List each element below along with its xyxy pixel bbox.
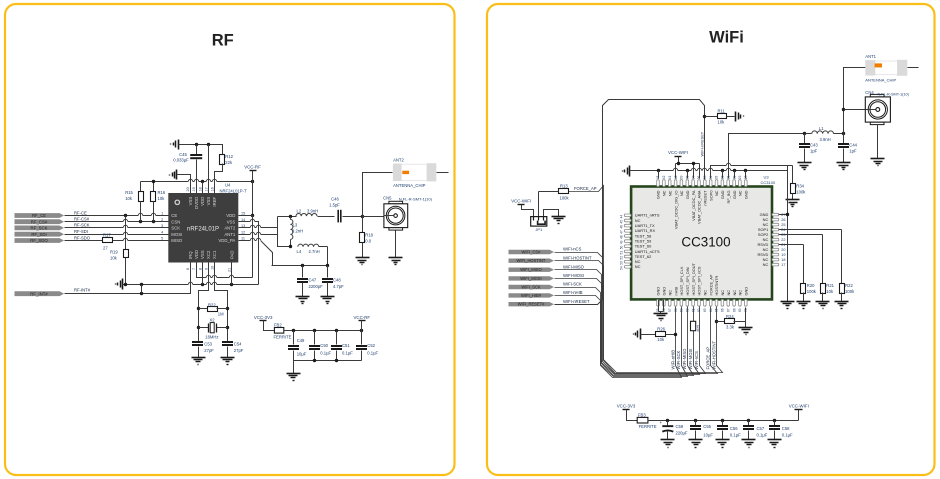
svg-text:WIFI-MISO: WIFI-MISO [682,348,687,370]
svg-text:N.FL-R-SMT-1(10): N.FL-R-SMT-1(10) [399,197,433,202]
svg-text:VBAT_DCDC_PA: VBAT_DCDC_PA [691,190,696,221]
svg-text:FERRITE: FERRITE [274,335,292,340]
svg-text:L2: L2 [297,208,302,213]
svg-text:VSS: VSS [206,197,211,206]
svg-text:2: 2 [161,218,163,222]
svg-text:GND: GND [685,190,690,199]
svg-text:63: 63 [703,308,707,312]
svg-text:100k: 100k [560,196,570,201]
ground G19 [798,162,812,164]
capacitor C57 [748,421,750,426]
wire VDD_PA pin [239,241,273,266]
wire XC2 loop [199,263,209,342]
ground G11 [552,216,566,218]
svg-text:C50: C50 [320,343,328,348]
svg-text:C45: C45 [179,152,187,157]
wire VDD15 [239,215,253,217]
svg-text:C52: C52 [367,343,375,348]
svg-text:RF-SCK: RF-SCK [74,223,90,228]
svg-text:VDD: VDD [194,250,199,259]
wire RF_BG [729,134,805,179]
svg-text:C49: C49 [297,338,305,343]
svg-text:0.1µF: 0.1µF [320,351,331,356]
svg-text:CC3100: CC3100 [761,180,776,185]
svg-text:nRESET: nRESET [703,190,708,206]
capacitor C58 [774,421,776,426]
wire WIFI-MOSI [555,279,700,375]
ground G22 [654,313,668,315]
svg-text:50: 50 [619,246,623,250]
svg-text:10k: 10k [110,255,118,260]
svg-text:CN4: CN4 [865,90,874,95]
connector CN4 [870,94,884,97]
svg-text:WIFI_MISO: WIFI_MISO [520,267,541,272]
connector RF_SDI [15,232,65,237]
resistor R11 [705,116,718,118]
wire top pin VBAT 699 [699,164,701,179]
wire gnd1 [179,144,222,146]
wire pin17 vss [208,145,210,194]
svg-text:8.2nH: 8.2nH [292,229,303,234]
op-amp U3 CC3100 chip [631,187,772,300]
wire ANT1 pin [239,235,291,247]
svg-text:WIFI-SCK: WIFI-SCK [676,350,681,369]
inductor L1 [805,133,812,135]
svg-text:WIFI-HOSTINT: WIFI-HOSTINT [711,340,716,369]
resistor R18 [362,217,364,233]
capacitor C48 [327,266,329,278]
svg-text:10k: 10k [158,196,166,201]
capacitor C45 [196,145,198,155]
svg-text:0.1µF: 0.1µF [342,351,353,356]
svg-text:68: 68 [732,308,736,312]
svg-text:42: 42 [662,175,666,179]
svg-text:1pF: 1pF [849,149,857,154]
ground G2 [176,170,178,180]
wire SOP1 [779,229,842,231]
svg-text:VCC-RF: VCC-RF [354,315,371,320]
wire SOP2 [779,234,823,236]
svg-text:NC: NC [667,190,672,196]
svg-text:VCC-3V3: VCC-3V3 [254,315,273,320]
wire RF-CE row [65,215,169,217]
connector RF_SCK [15,226,65,231]
wire VCC vertical [252,182,254,278]
svg-text:JP1: JP1 [535,227,543,232]
svg-text:C57: C57 [757,426,765,431]
wire top pin VBAT 693.1 [693,164,695,179]
svg-text:NC: NC [714,190,719,196]
wire wifi vcc rail [648,420,799,422]
connector WIFI_SCK [509,285,555,289]
svg-text:C43: C43 [810,143,818,148]
wire int stub [141,285,143,294]
svg-text:IRQ: IRQ [188,251,193,259]
svg-text:0.033µF: 0.033µF [173,158,189,163]
svg-text:RF-SDI: RF-SDI [74,229,88,234]
svg-text:XC1: XC1 [212,250,217,259]
capacitor C49 [293,331,295,345]
ground G13 [735,112,737,122]
svg-text:NC: NC [720,290,725,296]
antenna ANT2 [401,164,427,180]
svg-text:66: 66 [721,308,725,312]
svg-text:19: 19 [192,187,196,191]
svg-text:NC: NC [703,290,708,296]
svg-text:X2: X2 [210,318,216,323]
svg-text:SOP0: SOP0 [708,190,713,201]
svg-text:R22: R22 [208,302,216,307]
WiFi panel border [487,4,935,475]
svg-text:10k: 10k [718,119,726,124]
svg-text:47: 47 [619,230,623,234]
wire pin20 vss [177,175,191,194]
svg-text:GND: GND [720,190,725,199]
svg-text:59: 59 [680,308,684,312]
svg-text:3.3k: 3.3k [726,325,735,330]
svg-text:0.0: 0.0 [365,239,371,244]
svg-text:CC3100: CC3100 [681,234,730,249]
capacitor C44 [842,132,845,135]
ground Gb748.9 [742,439,756,441]
svg-text:VDD: VDD [200,197,205,206]
svg-text:GND: GND [662,287,667,296]
ground G4 [356,257,370,259]
svg-text:R25: R25 [696,325,700,332]
svg-text:100k: 100k [845,289,855,294]
svg-text:4: 4 [161,230,163,234]
svg-text:R18: R18 [365,233,373,238]
ground G8 [192,357,206,359]
capacitor C47 [302,266,304,278]
inductor L2 [278,216,297,218]
svg-text:52: 52 [619,256,623,260]
wire RF-SCK row [65,227,169,229]
pin pads U3 [624,214,631,217]
inductor L3 [290,217,292,220]
svg-text:41: 41 [668,175,672,179]
ground G1 [178,140,180,150]
svg-text:220µF: 220µF [676,430,688,435]
svg-text:NRF24L01P-T: NRF24L01P-T [220,189,247,194]
svg-text:C48: C48 [333,277,341,282]
wire top pin GND 658 [658,171,660,179]
connector RF_SDO [15,238,65,243]
resistor R34 [792,166,794,184]
jumper JP1 [531,217,547,227]
svg-text:27: 27 [103,246,108,251]
svg-text:16: 16 [210,187,214,191]
svg-text:65: 65 [715,308,719,312]
svg-text:R24: R24 [726,314,734,319]
svg-text:RF_BG: RF_BG [726,191,731,204]
wire WIFI-nCS [555,253,706,374]
svg-text:27pF: 27pF [204,348,214,353]
svg-text:8: 8 [198,268,202,270]
wire top pin VBAT 675.6 [675,164,677,179]
svg-text:20: 20 [186,187,190,191]
svg-text:22k: 22k [225,160,233,165]
svg-text:WIFI-SCK: WIFI-SCK [563,282,582,287]
wire VSS14 [239,222,259,285]
resistor R22 [199,308,208,310]
ground Gb667.8 [661,439,675,441]
wire CN4 in [844,109,866,111]
resistor R12 [222,145,223,155]
wire RF-CS# row [65,221,169,223]
svg-text:L4: L4 [297,249,302,254]
svg-text:R12: R12 [225,154,233,159]
svg-text:2200pF: 2200pF [309,284,324,289]
svg-text:GND: GND [744,287,749,296]
wire gnd pin br [745,308,747,322]
svg-text:WIFI-nCS: WIFI-nCS [563,247,582,252]
svg-text:RF_SDI: RF_SDI [31,232,46,237]
wire RF-SDO row [65,240,103,242]
svg-text:R16: R16 [158,190,166,195]
svg-text:HOST_SPI_DOUT: HOST_SPI_DOUT [691,262,696,295]
svg-text:10k: 10k [125,196,133,201]
svg-text:C55: C55 [703,424,711,429]
svg-text:VCC-RF: VCC-RF [244,164,261,169]
wire pin27 gnd [779,214,788,216]
ground G14 [786,199,800,201]
svg-text:0.1µF: 0.1µF [730,432,741,437]
svg-text:2.7nH: 2.7nH [309,249,320,254]
svg-text:U3: U3 [764,174,770,179]
svg-text:WIFI_MOSI: WIFI_MOSI [520,276,541,281]
svg-text:RF_CE: RF_CE [32,213,46,218]
svg-text:60: 60 [686,308,690,312]
svg-text:WIFI-HOSTINT: WIFI-HOSTINT [563,255,592,260]
svg-text:10k: 10k [657,337,665,342]
ground G6 [321,296,335,298]
svg-text:C59: C59 [676,424,684,429]
svg-text:FORCE_AP: FORCE_AP [706,347,711,370]
svg-text:VCC-3V3: VCC-3V3 [617,404,636,409]
inductor L4 [298,244,319,247]
ground G23 [739,327,753,329]
svg-text:NC: NC [667,290,672,296]
svg-text:FORCE_AP: FORCE_AP [574,186,597,191]
capacitor C53 [192,341,203,343]
antenna ANT1 [874,61,898,75]
svg-text:R20: R20 [807,283,815,288]
svg-text:R11: R11 [718,109,726,114]
svg-text:26: 26 [781,218,785,222]
wire bottom rail [294,360,362,362]
wire CN4 gnd [877,125,879,159]
svg-text:RF-INT#: RF-INT# [74,288,91,293]
svg-text:17: 17 [204,187,208,191]
svg-text:R26: R26 [657,327,665,332]
svg-text:VBAT_DCDC_DIG_IO: VBAT_DCDC_DIG_IO [673,191,678,230]
svg-text:C53: C53 [204,342,212,347]
ground G16 [797,301,811,303]
svg-text:MISO: MISO [171,238,183,243]
ground G7 [389,257,403,259]
svg-text:RF: RF [212,32,234,50]
svg-text:6: 6 [186,268,190,270]
ground G5 [296,296,310,298]
connector WIFI_HIB# [509,293,555,297]
svg-text:RF-SDO: RF-SDO [74,235,91,240]
svg-text:12: 12 [241,230,245,234]
svg-text:VCC-WIFI: VCC-WIFI [668,150,688,155]
wire WIFI-nHIB [555,296,682,378]
wire VCC rail [141,181,253,183]
resistor R21 [821,284,826,294]
svg-text:NC: NC [763,262,769,267]
svg-text:7: 7 [192,268,196,270]
svg-text:C46: C46 [331,197,339,202]
svg-text:VCC-WIFI: VCC-WIFI [789,404,809,409]
svg-text:69: 69 [738,308,742,312]
svg-text:WIFI-MISO: WIFI-MISO [563,264,585,269]
connector RF_CE [15,213,65,218]
svg-text:44: 44 [619,215,623,219]
wire CN5 gnd [395,231,397,258]
svg-text:WIFI-MOSI: WIFI-MOSI [563,273,584,278]
svg-text:10k: 10k [826,289,834,294]
svg-text:1: 1 [161,212,163,216]
svg-text:C56: C56 [730,426,738,431]
svg-text:PAD: PAD [229,250,234,259]
wire VDD7 [197,263,253,278]
svg-text:58: 58 [674,308,678,312]
svg-text:GND: GND [744,190,749,199]
capacitor C56 [722,421,724,426]
svg-text:RF_INT#: RF_INT# [30,291,48,296]
svg-text:RF-CE: RF-CE [74,210,87,215]
capacitor C50 [314,331,316,345]
svg-text:VSS: VSS [200,250,205,259]
svg-text:FB2: FB2 [274,322,282,327]
svg-text:48: 48 [619,235,623,239]
svg-text:49: 49 [619,240,623,244]
svg-text:29: 29 [738,175,742,179]
svg-text:18: 18 [198,187,202,191]
svg-text:R19: R19 [110,249,118,254]
svg-text:C51: C51 [342,343,350,348]
svg-text:16MHz: 16MHz [205,334,218,339]
svg-text:WIFI-MOSI: WIFI-MOSI [688,349,693,370]
svg-text:HOSTINTR: HOSTINTR [714,275,719,295]
svg-text:4.7pF: 4.7pF [333,284,344,289]
svg-text:IREF: IREF [212,196,217,206]
svg-text:10µF: 10µF [703,432,713,437]
svg-text:22: 22 [781,238,785,242]
svg-text:RF-CS#: RF-CS# [74,217,90,222]
connector WIFI_HOSTINT [509,259,555,263]
svg-text:R21: R21 [826,283,834,288]
capacitor C55 [695,421,697,426]
connector RF_CS# [15,219,65,224]
svg-text:ANTENNA_CHIP: ANTENNA_CHIP [865,78,896,83]
svg-text:WIFI_HOSTINT: WIFI_HOSTINT [517,258,546,263]
svg-text:VBAT_DCDC_ANA: VBAT_DCDC_ANA [697,190,702,224]
svg-text:FERRITE: FERRITE [639,424,657,429]
svg-text:DVDD: DVDD [194,197,199,209]
connector CN5 [363,216,384,218]
resistor R13 [559,189,569,194]
svg-text:U4: U4 [225,183,231,188]
svg-text:54: 54 [619,266,623,270]
svg-text:ANT1: ANT1 [224,232,236,237]
svg-text:53: 53 [619,261,623,265]
svg-text:1.5pF: 1.5pF [329,202,340,207]
resistor R17 [103,238,113,243]
svg-text:ANT1: ANT1 [865,54,876,59]
resistor R24 [715,320,718,323]
svg-text:GND: GND [656,190,661,199]
svg-text:WIFI-nCS: WIFI-nCS [694,351,699,370]
svg-text:WIFI-nRESET: WIFI-nRESET [699,131,704,156]
svg-text:C44: C44 [849,143,857,148]
svg-text:100k: 100k [807,289,817,294]
svg-text:33: 33 [715,175,719,179]
ground G20 [837,162,851,164]
svg-text:0.1µF: 0.1µF [367,351,378,356]
svg-text:WIFI-nRESET: WIFI-nRESET [563,299,590,304]
svg-text:C54: C54 [234,342,242,347]
wire WIFI-nRESET [555,100,705,305]
wire PAD [231,263,233,285]
svg-text:9: 9 [204,268,208,270]
wire nRESET vert [704,106,706,179]
svg-text:ANTENNA_CHIP: ANTENNA_CHIP [393,183,426,188]
wire gnd pins bl [658,300,660,312]
wire VSS8 [202,263,204,285]
wire RSVD21 [779,244,804,246]
svg-text:L1: L1 [819,126,824,131]
capacitor C46 [337,210,339,223]
svg-text:HOST_SPI_DIN: HOST_SPI_DIN [685,267,690,295]
svg-text:WIFI_HIB#: WIFI_HIB# [521,293,542,298]
connector WIFI_RESET# [509,302,555,306]
resistor R16 [153,182,155,192]
wire RF-SDI row [65,234,169,236]
svg-text:VCC-WIFI: VCC-WIFI [511,198,531,203]
svg-text:WIFI_CS#: WIFI_CS# [522,250,542,255]
svg-text:3: 3 [161,224,163,228]
crystal X2 [199,327,209,329]
svg-text:67: 67 [726,308,730,312]
svg-text:R22: R22 [845,283,853,288]
capacitor C43 [804,134,806,144]
svg-text:ANT2: ANT2 [224,226,236,231]
svg-text:+: + [660,420,663,425]
svg-text:NC: NC [726,290,731,296]
svg-text:CSN: CSN [171,219,180,224]
svg-text:10µF: 10µF [297,352,307,357]
svg-text:NC: NC [732,290,737,296]
wire top pin GND 734.1 [734,171,736,179]
svg-text:45: 45 [619,220,623,224]
svg-text:20: 20 [781,248,785,252]
ground G3 [122,279,124,290]
svg-text:WIFI-nHIB: WIFI-nHIB [670,350,675,370]
svg-text:MOSI: MOSI [171,232,182,237]
resistor R19 [125,216,127,250]
svg-text:R13: R13 [560,184,568,189]
svg-text:nHIB: nHIB [673,286,678,295]
wire top pin GND 687.3 [687,171,689,179]
svg-text:39: 39 [680,175,684,179]
connector WIFI_MOSI [509,276,555,280]
svg-text:18: 18 [781,258,785,262]
ground G9 [221,357,235,359]
